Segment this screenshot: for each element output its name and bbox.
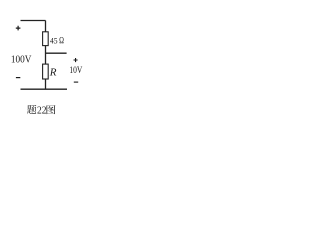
wire top lead from + terminal to corner bbox=[21, 20, 46, 22]
terminal - (100V negative) bbox=[16, 77, 20, 79]
svg-text:45: 45 bbox=[50, 36, 58, 45]
svg-text:22: 22 bbox=[37, 105, 47, 116]
terminal - (10V negative) bbox=[74, 81, 78, 83]
svg-text:10V: 10V bbox=[69, 65, 82, 76]
wire below R to bottom rail bbox=[45, 79, 47, 89]
wire right vertical drop to resistor R1 bbox=[45, 21, 47, 32]
resistor R box bbox=[43, 64, 49, 79]
wire output branch to + of 10V bbox=[46, 52, 67, 54]
svg-text:100V: 100V bbox=[11, 55, 32, 66]
resistor R1 box (45 ohm) bbox=[43, 32, 49, 46]
terminal + (100V positive) bbox=[16, 26, 21, 31]
terminal + (10V positive) bbox=[74, 58, 78, 62]
wire between resistors bbox=[45, 46, 47, 65]
svg-text:R: R bbox=[49, 67, 57, 79]
caption char 图 bbox=[46, 105, 55, 114]
caption char 题 bbox=[27, 105, 36, 114]
wire bottom rail bbox=[21, 88, 68, 90]
